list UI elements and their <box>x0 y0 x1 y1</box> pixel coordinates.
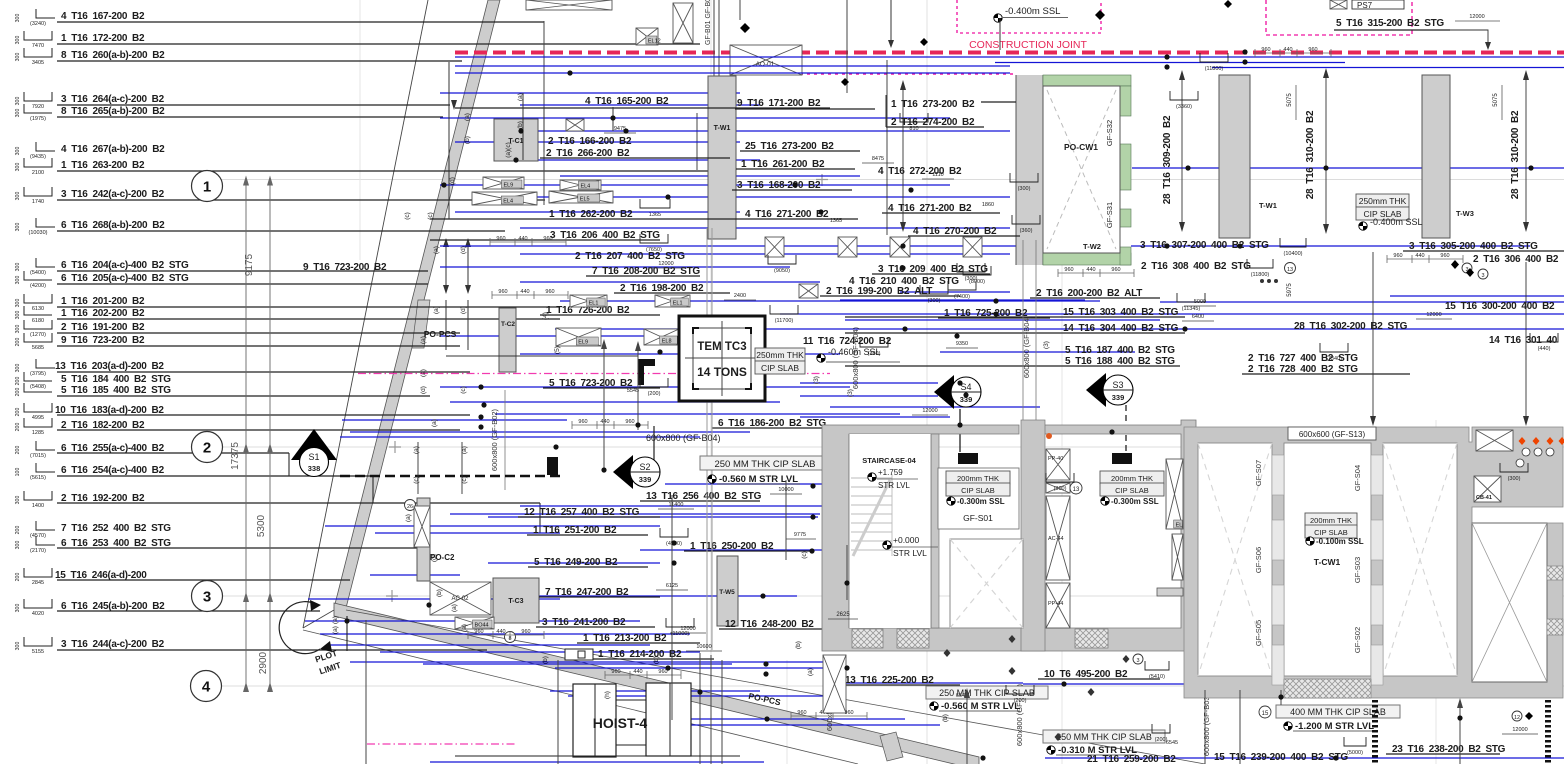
svg-text:3: 3 <box>1481 273 1484 279</box>
svg-text:1285: 1285 <box>32 430 44 436</box>
staircase level 0 <box>883 541 891 549</box>
dim3 corner <box>468 634 544 636</box>
svg-text:5 T16 249-200 B2: 5 T16 249-200 B2 <box>534 557 618 568</box>
svg-text:9 T16 723-200 B2: 9 T16 723-200 B2 <box>303 262 387 273</box>
svg-text:8 T16 260(a-b)-200 B2: 8 T16 260(a-b)-200 B2 <box>61 50 165 61</box>
svg-text:2: 2 <box>203 440 211 457</box>
svg-text:(300): (300) <box>1508 476 1521 482</box>
label 261-200 <box>736 159 855 170</box>
svg-text:300: 300 <box>15 53 21 62</box>
svg-text:(5400): (5400) <box>30 270 46 276</box>
svg-text:GF-S31: GF-S31 <box>1105 202 1114 228</box>
label 723-200 <box>543 378 660 389</box>
svg-text:GF-S06: GF-S06 <box>1254 547 1263 573</box>
rebar label 167-200 <box>15 9 544 27</box>
rebar label 183(a-d)-200 <box>15 403 470 421</box>
svg-text:600x800 (GF-B04): 600x800 (GF-B04) <box>851 326 860 389</box>
svg-text:28 T16 302-200 B2 STG: 28 T16 302-200 B2 STG <box>1294 321 1408 332</box>
beam GF-B06 lines <box>713 0 715 77</box>
xbox row A1 <box>765 237 784 257</box>
grid cross 2 <box>389 441 401 453</box>
svg-text:12000: 12000 <box>922 408 937 414</box>
svg-text:7470: 7470 <box>32 43 44 49</box>
label 214-200 <box>592 649 714 660</box>
rebar label 182-200 <box>15 418 460 436</box>
svg-text:810: 810 <box>909 126 918 132</box>
svg-text:440: 440 <box>1086 267 1095 273</box>
dim3 group <box>490 241 566 243</box>
svg-text:9175: 9175 <box>244 253 255 276</box>
svg-text:AC-44: AC-44 <box>1048 536 1064 542</box>
svg-text:(3): (3) <box>847 389 854 397</box>
svg-text:1 T16 202-200 B2: 1 T16 202-200 B2 <box>61 308 145 319</box>
rebar label 204(a-c)-400 <box>15 258 428 276</box>
svg-text:-0.310 M STR LVL: -0.310 M STR LVL <box>1058 745 1137 756</box>
svg-text:1 T16 263-200 B2: 1 T16 263-200 B2 <box>61 160 145 171</box>
svg-text:(d): (d) <box>460 246 467 254</box>
svg-text:3: 3 <box>203 589 211 606</box>
label 225-200 <box>839 675 960 686</box>
svg-text:(a): (a) <box>332 626 339 634</box>
vert dim T-W1 area <box>902 82 904 230</box>
stair core building <box>822 420 1196 651</box>
dim tick <box>243 176 249 186</box>
hoist inner line 1 <box>594 684 596 757</box>
svg-text:2 T16 191-200 B2: 2 T16 191-200 B2 <box>61 322 145 333</box>
grid bubble 1 <box>192 171 223 202</box>
dim tick <box>243 592 249 602</box>
pink dashdot line bottom <box>367 743 516 745</box>
top wide box <box>526 0 612 10</box>
room GF-S01 <box>938 468 1019 529</box>
svg-text:(1270): (1270) <box>30 332 46 338</box>
BLM flag 1 <box>1088 688 1095 696</box>
svg-text:-0.300m SSL: -0.300m SSL <box>957 497 1005 506</box>
svg-text:T-CW1: T-CW1 <box>1314 557 1341 567</box>
svg-text:4 T16 272-200 B2: 4 T16 272-200 B2 <box>878 166 962 177</box>
label 250-200 <box>684 541 810 552</box>
label 274-200 <box>886 117 984 128</box>
rebar label 244(a-c)-200 <box>15 637 487 655</box>
svg-text:T-C2: T-C2 <box>501 321 515 328</box>
column strip AC-44 <box>1046 496 1070 580</box>
hoist connectors <box>616 699 646 701</box>
svg-text:(5410): (5410) <box>1149 674 1165 680</box>
xbox under TC1 d <box>549 191 613 203</box>
svg-text:(3795): (3795) <box>30 371 46 377</box>
svg-text:S2: S2 <box>639 462 650 472</box>
hex 8 <box>505 632 516 643</box>
magenta dotted box topright <box>1266 0 1412 35</box>
svg-text:2 T16 308 400 B2 STG: 2 T16 308 400 B2 STG <box>1141 261 1251 272</box>
rebar label 723-200 <box>15 333 460 351</box>
svg-text:6 T16 254(a-c)-400 B2: 6 T16 254(a-c)-400 B2 <box>61 465 165 476</box>
svg-text:(a): (a) <box>413 446 420 454</box>
svg-text:(9435): (9435) <box>30 154 46 160</box>
orange dot <box>1046 433 1052 439</box>
svg-text:6 T16 245(a-b)-200 B2: 6 T16 245(a-b)-200 B2 <box>61 601 165 612</box>
hatch patch 1 <box>852 629 883 648</box>
label 728 <box>1242 364 1410 375</box>
vert leader 1281 <box>1280 690 1282 705</box>
S2 black square <box>547 457 558 475</box>
svg-text:300: 300 <box>15 311 21 320</box>
svg-text:300: 300 <box>15 263 21 272</box>
grid col line B <box>926 0 928 764</box>
svg-text:2 T16 266-200 B2: 2 T16 266-200 B2 <box>546 148 630 159</box>
svg-text:4 T16 271-200 B2: 4 T16 271-200 B2 <box>745 209 829 220</box>
section marker S3 <box>1086 373 1106 407</box>
svg-text:200: 200 <box>15 526 21 535</box>
ramp pier PO-PCS block upper <box>412 300 430 348</box>
top right xbox <box>1476 430 1513 451</box>
S3 black square <box>1112 453 1132 464</box>
svg-text:13 T16 256 400 B2 STG: 13 T16 256 400 B2 STG <box>646 491 762 502</box>
rebar label 192-200 <box>15 491 540 509</box>
svg-text:CIP SLAB: CIP SLAB <box>761 363 799 373</box>
svg-text:GF-B01 GF-B06: GF-B01 GF-B06 <box>705 0 712 45</box>
svg-text:1 T16 250-200 B2: 1 T16 250-200 B2 <box>690 541 774 552</box>
svg-text:GF-S01: GF-S01 <box>963 513 993 523</box>
svg-text:9 T16 723-200 B2: 9 T16 723-200 B2 <box>61 335 145 346</box>
svg-text:-0.400m SSL: -0.400m SSL <box>1005 6 1060 17</box>
svg-text:4 T16 270-200 B2: 4 T16 270-200 B2 <box>913 226 997 237</box>
svg-text:1110: 1110 <box>932 172 943 178</box>
svg-text:15 T16 246(a-d)-200: 15 T16 246(a-d)-200 <box>55 570 147 581</box>
svg-text:(c): (c) <box>413 476 420 484</box>
room right slab label <box>1100 471 1164 484</box>
lower diagonal thin line below <box>303 630 858 764</box>
svg-text:10 T6 495-200 B2: 10 T6 495-200 B2 <box>1044 669 1128 680</box>
hex 26 <box>405 500 416 511</box>
blue rebar lines <box>305 57 1564 762</box>
label 165-200 <box>455 96 830 108</box>
column T-C2 <box>499 308 516 372</box>
svg-text:4995: 4995 <box>32 415 44 421</box>
svg-text:300: 300 <box>15 36 21 45</box>
svg-text:AC-02: AC-02 <box>451 596 469 602</box>
svg-text:600x600 (GF-S13): 600x600 (GF-S13) <box>1299 430 1366 439</box>
svg-text:12: 12 <box>1514 715 1520 721</box>
staircase level <box>868 473 876 481</box>
svg-text:1400: 1400 <box>32 503 44 509</box>
slab label right <box>1356 194 1409 207</box>
dim3 group <box>605 674 681 676</box>
vert leader 1240 bottom <box>1239 690 1241 764</box>
label 210 <box>849 276 959 287</box>
svg-text:5 T16 315-200 B2 STG: 5 T16 315-200 B2 STG <box>1336 18 1444 29</box>
slab 250MM bottom2 <box>1043 730 1165 743</box>
vert leader 604 <box>603 341 605 470</box>
label 307-200 <box>1140 240 1269 251</box>
label 256 <box>640 491 762 502</box>
BLM flag 2 <box>1055 733 1062 741</box>
svg-text:(b): (b) <box>653 656 660 664</box>
dim3 group <box>1058 272 1134 274</box>
T-CW1 level <box>1306 537 1314 545</box>
black dashed heavy S1 <box>340 475 560 478</box>
svg-text:300: 300 <box>15 496 21 505</box>
svg-text:1 T16 262-200 B2: 1 T16 262-200 B2 <box>549 209 633 220</box>
svg-text:(a): (a) <box>420 336 427 344</box>
svg-text:15: 15 <box>1262 711 1269 717</box>
level -0.400m SSL top <box>994 14 1002 22</box>
rebar label 242(a-c)-200 <box>15 187 545 205</box>
svg-text:(a): (a) <box>420 369 427 377</box>
svg-text:AO-01: AO-01 <box>756 61 775 68</box>
label 727 <box>1248 353 1358 364</box>
rebar label 255(a-c)-400 <box>15 441 289 459</box>
vert line 558 <box>557 660 559 764</box>
column T-W1 mid <box>708 76 736 239</box>
svg-text:(4200): (4200) <box>30 283 46 289</box>
svg-text:T-W1: T-W1 <box>1259 201 1277 210</box>
svg-text:BO44: BO44 <box>475 623 489 629</box>
dim3 topright <box>1255 52 1331 54</box>
label 273-200 <box>740 141 860 152</box>
label 725-200 <box>938 308 1050 319</box>
label 239-200 <box>1214 752 1348 763</box>
svg-text:GF-S05: GF-S05 <box>1254 620 1263 646</box>
BLM flag 5 <box>944 649 951 657</box>
diamond 845 <box>841 78 849 86</box>
leader topright <box>1450 30 1488 48</box>
svg-text:14 TONS: 14 TONS <box>697 365 747 379</box>
svg-text:300: 300 <box>15 642 21 651</box>
svg-text:EL4: EL4 <box>503 199 513 205</box>
svg-text:1 T16 261-200 B2: 1 T16 261-200 B2 <box>741 159 825 170</box>
label 273-200 <box>891 99 1016 110</box>
CB-41 xbox <box>1474 476 1501 502</box>
label 241-200 <box>536 617 655 628</box>
svg-text:(360): (360) <box>1020 228 1033 234</box>
right room xbox tall <box>1166 459 1183 529</box>
svg-text:EL9: EL9 <box>503 183 513 189</box>
svg-text:STR LVL: STR LVL <box>878 481 910 490</box>
svg-text:-0.400m SSL: -0.400m SSL <box>1370 217 1423 227</box>
elevator core PO-CW1 <box>1016 75 1131 265</box>
top diamond 1 <box>740 23 750 33</box>
svg-text:(3240): (3240) <box>30 21 46 27</box>
svg-text:23 T16 238-200 B2 STG: 23 T16 238-200 B2 STG <box>1392 744 1506 755</box>
xbox under TC1 c <box>560 180 601 190</box>
leader vert x544 <box>543 107 545 152</box>
xbox row A2 <box>838 237 857 257</box>
svg-text:(a): (a) <box>405 514 412 522</box>
svg-text:960: 960 <box>625 419 634 425</box>
svg-text:(300): (300) <box>1018 186 1031 192</box>
label 186-200 <box>712 418 870 429</box>
hatch patch 2 <box>897 629 929 648</box>
svg-text:17375: 17375 <box>230 442 241 470</box>
svg-text:6 T16 255(a-c)-400 B2: 6 T16 255(a-c)-400 B2 <box>61 443 165 454</box>
callout 11800b <box>1247 259 1273 268</box>
label 308 <box>1141 261 1251 272</box>
TEM TC3 tower crane box <box>679 316 765 401</box>
svg-text:(4570): (4570) <box>30 533 46 539</box>
svg-text:960: 960 <box>1111 267 1120 273</box>
top diamond 3 <box>1224 0 1232 8</box>
xbox small AC <box>1046 483 1070 493</box>
svg-text:3 T16 264(a-c)-200 B2: 3 T16 264(a-c)-200 B2 <box>61 94 165 105</box>
vert line 1205 <box>1204 690 1206 764</box>
vert leader 1460 bottom <box>1459 700 1461 764</box>
svg-text:2 T16 306 400 B2: 2 T16 306 400 B2 <box>1473 254 1559 265</box>
svg-text:(b): (b) <box>795 641 802 649</box>
svg-text:GF-S03: GF-S03 <box>1353 557 1362 583</box>
pink dashdot line mid2 <box>765 373 830 375</box>
svg-text:200: 200 <box>15 388 21 397</box>
pink dashdot line mid <box>358 373 679 375</box>
svg-text:PP-40: PP-40 <box>1048 456 1063 462</box>
svg-text:STR LVL: STR LVL <box>893 548 927 558</box>
svg-text:(b): (b) <box>436 589 443 597</box>
S4 black square <box>958 453 978 464</box>
dim3 group <box>572 424 648 426</box>
label 262-200 <box>430 209 740 220</box>
grid row line 2 <box>222 446 1564 448</box>
callout 5410 <box>1145 661 1169 670</box>
svg-text:300: 300 <box>15 97 21 106</box>
svg-text:400 MM THK CIP SLAB: 400 MM THK CIP SLAB <box>1290 707 1386 717</box>
svg-text:2 T16 728 400 B2 STG: 2 T16 728 400 B2 STG <box>1248 364 1358 375</box>
svg-text:6545: 6545 <box>1166 740 1178 746</box>
svg-text:(a): (a) <box>451 604 458 612</box>
svg-text:300: 300 <box>15 147 21 156</box>
svg-text:2 T16 199-200 B2 ALT: 2 T16 199-200 B2 ALT <box>826 286 932 297</box>
svg-text:300: 300 <box>15 14 21 23</box>
svg-text:1 T16 201-200 B2: 1 T16 201-200 B2 <box>61 296 145 307</box>
svg-text:EL1: EL1 <box>589 301 599 307</box>
bracket 273/274 <box>885 95 887 127</box>
magenta dotted box top <box>957 0 1101 33</box>
rebar label 268(a-b)-200 <box>15 218 505 236</box>
dim3 group <box>492 294 568 296</box>
svg-text:13 T16 225-200 B2: 13 T16 225-200 B2 <box>845 675 934 686</box>
xbox row A4 <box>963 237 982 257</box>
svg-text:3 T16 305-200 400 B2 STG: 3 T16 305-200 400 B2 STG <box>1409 241 1538 252</box>
vert arrows pair b <box>445 300 447 350</box>
rot dim line 310a <box>1325 70 1327 232</box>
svg-text:3405: 3405 <box>32 60 44 66</box>
leader vert x544 <box>543 21 545 205</box>
svg-text:(200): (200) <box>1155 737 1168 743</box>
svg-text:(3): (3) <box>1043 341 1050 349</box>
svg-text:(a): (a) <box>332 616 339 624</box>
label 724-200 <box>803 336 892 347</box>
grid col line A <box>710 0 712 764</box>
label 238-200 <box>1386 744 1506 755</box>
svg-text:200: 200 <box>15 573 21 582</box>
svg-text:+0.000: +0.000 <box>893 535 920 545</box>
vert line 711b <box>710 655 712 764</box>
svg-text:2 T16 166-200 B2: 2 T16 166-200 B2 <box>548 136 632 147</box>
svg-text:440: 440 <box>1415 253 1424 259</box>
svg-text:S1: S1 <box>308 452 319 462</box>
svg-text:960: 960 <box>543 236 552 242</box>
svg-text:T-C3: T-C3 <box>508 598 523 605</box>
svg-text:8475: 8475 <box>872 156 884 162</box>
beam lines mid x707 <box>706 228 708 650</box>
svg-text:960: 960 <box>1064 267 1073 273</box>
hex3 diamond mid <box>1133 654 1143 664</box>
S3 drop dashed <box>1125 405 1127 452</box>
svg-text:(1975): (1975) <box>30 116 46 122</box>
svg-text:3 T16 168-200 B2: 3 T16 168-200 B2 <box>737 180 821 191</box>
svg-text:EL4: EL4 <box>580 184 590 190</box>
svg-text:440: 440 <box>496 629 505 635</box>
label 259-200 <box>1087 754 1176 764</box>
svg-text:440: 440 <box>520 289 529 295</box>
svg-text:960: 960 <box>474 629 483 635</box>
svg-text:(a): (a) <box>431 419 438 427</box>
svg-text:250mm THK: 250mm THK <box>1359 196 1407 206</box>
upper diagonal thin line <box>303 0 428 628</box>
right room xbox small <box>1172 534 1183 580</box>
svg-text:T-W1: T-W1 <box>714 125 731 132</box>
svg-text:1860: 1860 <box>982 202 994 208</box>
svg-text:HOIST-4: HOIST-4 <box>593 715 648 731</box>
svg-text:6130: 6130 <box>32 306 44 312</box>
grid col line D <box>359 0 361 260</box>
rebar label 254(a-c)-400 <box>15 463 373 481</box>
svg-text:(3360): (3360) <box>1176 104 1192 110</box>
label 251-200 <box>527 525 648 536</box>
hex 13 <box>1070 482 1082 494</box>
dim line B <box>269 179 271 686</box>
section marker S1 <box>291 429 337 460</box>
svg-text:PP-44: PP-44 <box>1048 601 1063 607</box>
svg-text:600x800 (GF-B04): 600x800 (GF-B04) <box>646 433 721 443</box>
svg-text:1365: 1365 <box>830 218 842 224</box>
wire step 255 <box>288 453 290 476</box>
svg-text:(2170): (2170) <box>30 548 46 554</box>
construction joint dashed line <box>455 51 1564 55</box>
svg-text:960: 960 <box>797 710 806 716</box>
hatch right edge 1 <box>1547 566 1563 580</box>
svg-text:-0.560 M STR LVL: -0.560 M STR LVL <box>941 701 1020 712</box>
svg-text:PS7: PS7 <box>1357 1 1373 10</box>
bottom right slab block <box>1184 427 1563 698</box>
svg-text:5 T16 187 400 B2 STG: 5 T16 187 400 B2 STG <box>1065 345 1175 356</box>
svg-text:5 T16 188 400 B2 STG: 5 T16 188 400 B2 STG <box>1065 356 1175 367</box>
svg-text:EL12: EL12 <box>648 39 661 45</box>
svg-text:6180: 6180 <box>32 318 44 324</box>
svg-text:11400: 11400 <box>669 502 684 508</box>
svg-text:2 T16 274-200 B2: 2 T16 274-200 B2 <box>891 117 975 128</box>
svg-text:(200): (200) <box>648 391 661 397</box>
svg-text:960: 960 <box>1393 253 1402 259</box>
label 495-200 <box>1038 669 1160 680</box>
svg-text:600x800 (GF-B02): 600x800 (GF-B02) <box>490 408 499 471</box>
svg-text:250 MM THK CIP SLAB: 250 MM THK CIP SLAB <box>714 459 815 470</box>
svg-text:12000: 12000 <box>1469 14 1484 20</box>
dim group topright2 <box>1387 258 1463 260</box>
svg-text:440: 440 <box>518 236 527 242</box>
svg-text:300: 300 <box>15 223 21 232</box>
svg-text:-0.100m SSL: -0.100m SSL <box>1316 537 1364 546</box>
svg-text:2400: 2400 <box>734 293 746 299</box>
leader vert x523 <box>522 93 524 160</box>
column T-C3 <box>493 578 539 623</box>
GF-S01 slab label <box>946 471 1010 484</box>
vert dim x1526 <box>1525 262 1527 424</box>
column T-W5 <box>717 556 738 626</box>
svg-text:(b): (b) <box>942 714 949 722</box>
rebar label 246(a-d)-200 <box>15 568 350 586</box>
vert line 366 <box>365 620 367 764</box>
column strip PP-40 <box>1046 449 1070 480</box>
